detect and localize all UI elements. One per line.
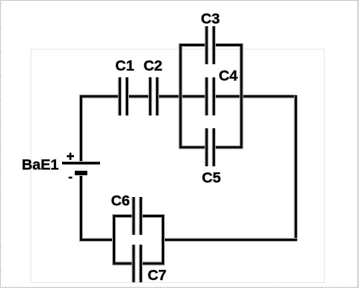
svg-text:C1: C1 — [115, 58, 134, 74]
capacitor C7 plates — [134, 245, 141, 283]
battery BaE1 positive plate (long thin) — [62, 161, 100, 165]
wire: C6C7 parallel box left half — [114, 216, 134, 264]
wire: C6C7 parallel box right half — [141, 216, 163, 264]
capacitor C6 plates — [134, 197, 141, 235]
wire: right branch vertical — [294, 95, 298, 241]
battery BaE1 negative plate (short thick) — [75, 170, 88, 176]
svg-text:C4: C4 — [219, 68, 239, 84]
wire: bottom-left link and left branch lower vertical (to battery -) — [81, 173, 114, 240]
svg-text:C3: C3 — [201, 11, 220, 27]
svg-text:BaE1: BaE1 — [22, 157, 59, 173]
capacitor C4 plates — [207, 77, 214, 115]
svg-text:C6: C6 — [111, 194, 130, 210]
battery BaE1 minus polarity symbol — [69, 176, 73, 179]
wire: top link C2 to C4 left plate (crosses C3C4C5 box left edge) — [157, 94, 206, 98]
wire: C3C4C5 parallel box right half (top rail, right edge, bottom rail) — [214, 45, 242, 147]
wire: left branch (battery + up to top-left corner, across to C1) — [81, 96, 120, 163]
wire: top link C4 right plate to top-right corner (crosses box right edge) — [214, 94, 296, 98]
wire: top link between C1 and C2 — [127, 94, 150, 98]
capacitor C2 plates — [150, 77, 157, 115]
svg-text:C5: C5 — [202, 170, 221, 186]
wire: C3C4C5 parallel box left half (top rail, left edge, bottom rail) — [181, 45, 207, 147]
svg-text:C7: C7 — [148, 268, 167, 284]
svg-text:C2: C2 — [144, 58, 163, 74]
wire: bottom link C6C7 box right edge to bottom-right corner — [163, 238, 297, 242]
capacitor C5 plates — [207, 128, 214, 166]
battery BaE1 plus polarity symbol — [67, 153, 74, 160]
capacitor C1 plates — [120, 77, 127, 115]
capacitor C3 plates — [207, 26, 214, 64]
